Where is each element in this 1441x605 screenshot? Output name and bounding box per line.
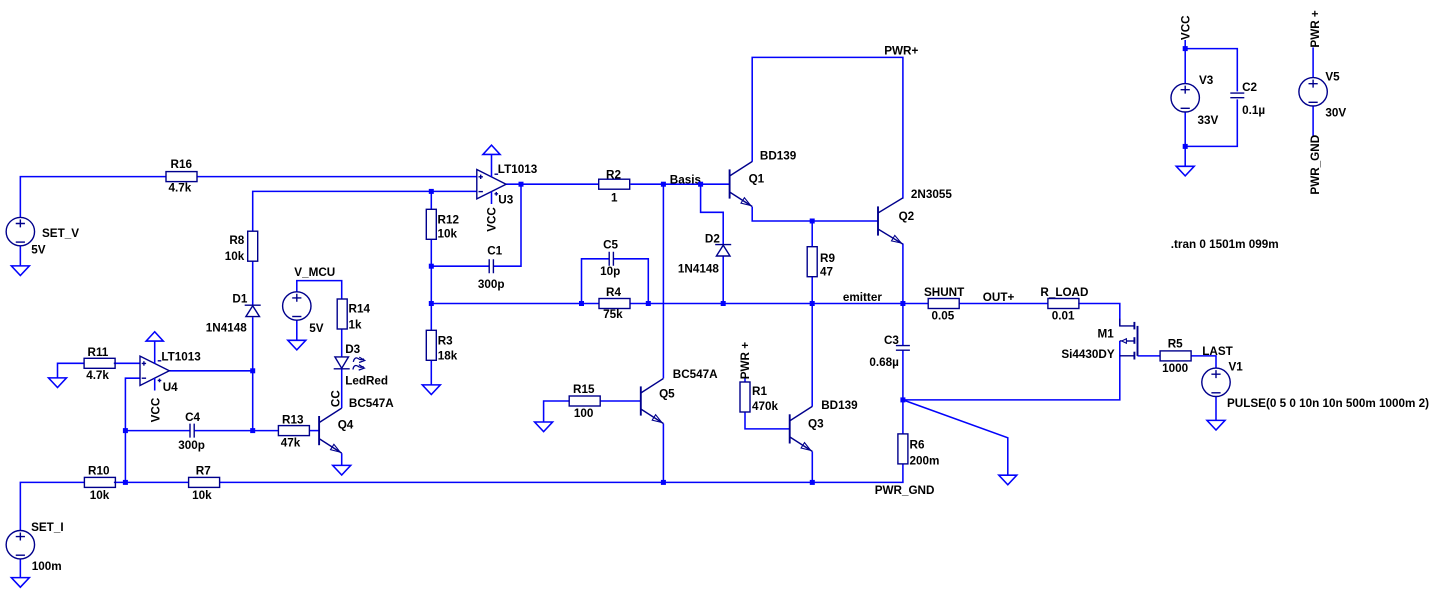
wire R14 to D3: [341, 329, 343, 357]
ground SET_I: [11, 578, 29, 588]
svg-text:V5: V5: [1325, 70, 1340, 83]
junction: [250, 368, 255, 373]
junction: [250, 428, 255, 433]
svg-text:R14: R14: [349, 303, 371, 316]
junction: [661, 182, 666, 187]
ground gate node: [999, 475, 1017, 485]
voltage source V1: [1202, 361, 1429, 410]
svg-text:R12: R12: [438, 213, 460, 226]
svg-text:C2: C2: [1242, 81, 1257, 94]
junction: [810, 301, 815, 306]
svg-text:V_MCU: V_MCU: [294, 266, 335, 279]
wire D1 to C4 row: [252, 317, 254, 430]
svg-text:R1: R1: [752, 385, 767, 398]
svg-text:R10: R10: [88, 465, 110, 478]
wire R11 left: [58, 363, 85, 378]
svg-text:75k: 75k: [603, 308, 623, 321]
diode D2: [715, 245, 731, 256]
svg-text:R_LOAD: R_LOAD: [1040, 286, 1088, 299]
svg-text:C5: C5: [603, 238, 618, 251]
svg-text:V3: V3: [1199, 74, 1214, 87]
wire R8 top row: [253, 191, 432, 231]
voltage source SET_I: [6, 521, 63, 573]
resistor R13: [278, 414, 309, 450]
svg-text:U3: U3: [498, 194, 513, 207]
wire R11 to U4 +in: [114, 362, 140, 364]
svg-text:Q5: Q5: [659, 388, 675, 401]
transistor Q3: [790, 399, 858, 452]
resistor R4: [599, 286, 630, 321]
svg-text:D1: D1: [232, 292, 247, 305]
transistor Q2: [878, 188, 952, 244]
svg-text:10k: 10k: [225, 250, 245, 263]
resistor R16: [166, 158, 197, 195]
svg-text:R3: R3: [438, 335, 453, 348]
wire R10 to SET_I: [20, 482, 84, 530]
svg-text:LedRed: LedRed: [345, 374, 388, 387]
svg-text:LT1013: LT1013: [161, 350, 201, 363]
junction: [810, 219, 815, 224]
wire V1 to ground: [1215, 397, 1217, 421]
resistor R1: [740, 382, 779, 413]
capacitor C4: [190, 424, 194, 438]
wire C5 left: [582, 259, 610, 304]
svg-text:emitter: emitter: [843, 291, 882, 304]
wire to C3: [902, 304, 904, 346]
junction: [646, 301, 651, 306]
resistor R6: [898, 434, 940, 468]
wire C1 to U3 out: [493, 184, 521, 266]
wire VCC to V3: [1184, 40, 1186, 84]
svg-text:PWR+: PWR+: [884, 44, 918, 57]
wire R1 top stub: [744, 378, 746, 382]
svg-text:Basis: Basis: [670, 173, 702, 186]
svg-text:2N3055: 2N3055: [911, 188, 952, 201]
svg-text:R9: R9: [820, 252, 835, 265]
capacitor C5: [609, 252, 613, 266]
wire V_MCU to ground: [296, 320, 298, 340]
wire D3 to Q4 collector: [341, 369, 343, 408]
svg-text:R11: R11: [88, 346, 109, 359]
svg-text:0.05: 0.05: [932, 309, 955, 322]
junction: [123, 480, 128, 485]
junction: [429, 189, 434, 194]
wire Basis column: [662, 184, 664, 378]
op-amp U3: [477, 145, 538, 232]
wire to U3 -in: [431, 190, 477, 192]
junction: [900, 397, 905, 402]
svg-text:1000: 1000: [1162, 362, 1189, 375]
junction: [1183, 46, 1188, 51]
svg-text:R8: R8: [229, 234, 244, 247]
ground V_MCU: [288, 340, 306, 350]
svg-text:1: 1: [611, 191, 618, 204]
resistor R8: [225, 231, 258, 263]
wire V3 to ground: [1184, 112, 1186, 166]
svg-text:R13: R13: [282, 414, 304, 427]
svg-text:Q2: Q2: [899, 210, 915, 223]
wire R8 to D1: [252, 261, 254, 305]
wire R7 to R10: [114, 481, 189, 483]
wire Q3 emitter: [811, 451, 813, 482]
svg-text:18k: 18k: [438, 350, 458, 363]
wire to D2: [701, 184, 724, 244]
svg-text:VCC: VCC: [149, 397, 162, 422]
wire R6 top: [902, 400, 904, 434]
svg-text:1N4148: 1N4148: [678, 262, 719, 275]
ground SET_V: [11, 266, 29, 276]
svg-text:V1: V1: [1229, 361, 1244, 374]
svg-text:C3: C3: [884, 334, 899, 347]
resistor R_LOAD: [1040, 286, 1088, 322]
svg-text:10k: 10k: [192, 489, 212, 502]
junction: [810, 480, 815, 485]
svg-text:VCC: VCC: [1180, 15, 1193, 40]
wire R9 top: [811, 221, 813, 247]
wire SET_I to ground: [19, 559, 21, 578]
wire V5 to PWR_GND: [1312, 106, 1314, 136]
svg-text:5V: 5V: [309, 322, 324, 335]
resistor R3: [426, 330, 457, 362]
svg-text:C1: C1: [487, 244, 502, 257]
svg-text:BC547A: BC547A: [673, 368, 718, 381]
svg-text:PWR +: PWR +: [739, 342, 752, 380]
wire SET_V to R16: [20, 177, 166, 218]
svg-text:5V: 5V: [31, 244, 46, 257]
wire U3 out to R2: [506, 183, 599, 185]
svg-text:PWR_GND: PWR_GND: [1309, 135, 1322, 195]
svg-text:100m: 100m: [32, 560, 62, 573]
svg-text:VCC: VCC: [486, 207, 499, 232]
wire R1 to Q3 base: [745, 412, 790, 429]
wire emitter row mid: [630, 303, 928, 305]
svg-text:200m: 200m: [910, 455, 940, 468]
diode D1: [245, 305, 261, 316]
svg-text:Si4430DY: Si4430DY: [1061, 348, 1114, 361]
ground R3: [422, 385, 440, 395]
wire R16 to U3 +in: [197, 176, 477, 178]
svg-text:33V: 33V: [1198, 114, 1219, 127]
wire C4 to R13: [194, 430, 278, 432]
MOSFET M1: [1061, 319, 1137, 361]
svg-text:PULSE(0 5 0 10n 10n 500m 1000m: PULSE(0 5 0 10n 10n 500m 1000m 2): [1227, 397, 1429, 410]
svg-text:300p: 300p: [178, 439, 205, 452]
wire to C4: [125, 430, 190, 432]
junction: [579, 301, 584, 306]
wire R2 to Q1 base: [631, 183, 730, 185]
junction: [721, 301, 726, 306]
wire R12 to R3: [430, 239, 432, 330]
svg-text:10p: 10p: [600, 265, 620, 278]
svg-text:470k: 470k: [752, 400, 779, 413]
svg-text:C4: C4: [185, 411, 200, 424]
svg-text:R6: R6: [910, 439, 925, 452]
voltage source V3: [1171, 74, 1219, 127]
svg-text:0.68µ: 0.68µ: [869, 356, 899, 369]
transistor Q1: [730, 150, 797, 207]
resistor SHUNT: [924, 286, 965, 322]
svg-text:30V: 30V: [1325, 107, 1346, 120]
wire Q1 emitter to Q2 base: [752, 207, 878, 221]
wire D2 to emitter row: [722, 256, 724, 303]
svg-text:SET_V: SET_V: [42, 227, 79, 240]
junction: [519, 182, 524, 187]
svg-text:Q1: Q1: [749, 172, 765, 185]
junction: [900, 301, 905, 306]
wire R12 top: [430, 191, 432, 209]
wire C2 bottom: [1185, 99, 1237, 146]
svg-text:D2: D2: [705, 232, 720, 245]
voltage source V_MCU: [283, 266, 336, 335]
wire R3 to ground: [430, 360, 432, 385]
junction: [698, 182, 703, 187]
svg-text:LT1013: LT1013: [498, 163, 538, 176]
svg-text:10k: 10k: [90, 489, 110, 502]
svg-text:M1: M1: [1098, 327, 1115, 340]
svg-text:OUT+: OUT+: [983, 291, 1015, 304]
op-amp U4: [140, 332, 201, 423]
svg-text:PWR_GND: PWR_GND: [875, 484, 935, 497]
svg-text:BD139: BD139: [760, 150, 797, 163]
ground R11: [49, 378, 67, 388]
wire PWR+ to V5: [1312, 47, 1314, 77]
svg-text:BD139: BD139: [821, 399, 858, 412]
resistor R14: [337, 299, 370, 331]
wire Q5 emitter: [662, 424, 664, 483]
LED D3: [334, 357, 365, 370]
svg-text:Q3: Q3: [808, 418, 824, 431]
svg-text:0.1µ: 0.1µ: [1242, 104, 1265, 117]
wire R15 to Q5 base: [600, 400, 641, 402]
wire R13 to Q4 base: [309, 430, 319, 432]
svg-text:R2: R2: [606, 169, 621, 182]
capacitor C2: [1230, 93, 1244, 98]
wire SHUNT to R_LOAD: [959, 303, 1048, 305]
junction: [429, 264, 434, 269]
svg-text:R4: R4: [606, 286, 621, 299]
wire PWR_GND row: [219, 464, 903, 483]
ground V3: [1176, 166, 1194, 176]
junction: [429, 301, 434, 306]
transistor Q5: [641, 368, 718, 424]
svg-text:100: 100: [574, 407, 594, 420]
svg-text:R15: R15: [573, 383, 595, 396]
wire Q2 emitter: [902, 244, 904, 304]
wire M1 source to R5: [1138, 355, 1161, 357]
wire C3 to node: [902, 350, 904, 400]
ground R15: [535, 422, 553, 432]
svg-text:D3: D3: [345, 343, 360, 356]
svg-text:300p: 300p: [478, 278, 505, 291]
wire R15 to ground: [544, 401, 570, 422]
ground Q4: [333, 465, 351, 475]
ground V1: [1207, 420, 1225, 430]
svg-text:PWR +: PWR +: [1309, 10, 1322, 48]
wire to C2 top: [1185, 49, 1237, 92]
svg-text:47: 47: [820, 265, 833, 278]
wire M1 gate net: [903, 341, 1120, 400]
wire U4 -in column: [125, 378, 140, 482]
wire V_MCU to R14: [297, 281, 342, 299]
svg-text:LAST: LAST: [1202, 345, 1233, 358]
svg-text:BC547A: BC547A: [349, 397, 394, 410]
resistor R10: [84, 465, 115, 502]
resistor R7: [189, 465, 220, 502]
svg-text:4.7k: 4.7k: [86, 369, 109, 382]
transistor Q4: [319, 397, 394, 453]
wire U4 out: [169, 370, 252, 372]
capacitor C3: [896, 346, 910, 351]
svg-text:.tran 0 1501m 099m: .tran 0 1501m 099m: [1171, 238, 1279, 251]
resistor R9: [807, 247, 835, 279]
voltage source V5: [1299, 70, 1347, 119]
capacitor C1: [489, 259, 493, 273]
wire C5 right: [613, 259, 648, 304]
wire Q4 emitter to ground: [341, 453, 343, 465]
wire R_LOAD to M1 drain: [1078, 304, 1120, 326]
wire PWR+ rail: [752, 57, 903, 198]
wire R5 to V1: [1191, 356, 1217, 368]
wire R9 bottom: [811, 277, 813, 304]
svg-text:R16: R16: [171, 158, 193, 171]
svg-text:R7: R7: [196, 465, 211, 478]
resistor R5: [1160, 338, 1191, 375]
wire to C1: [431, 265, 489, 267]
svg-text:1N4148: 1N4148: [206, 321, 247, 334]
junction: [123, 428, 128, 433]
wire SET_V to ground: [19, 246, 21, 266]
resistor R2: [599, 169, 630, 205]
svg-text:4.7k: 4.7k: [169, 182, 192, 195]
svg-text:47k: 47k: [281, 437, 301, 450]
svg-text:10k: 10k: [438, 228, 458, 241]
wire to Q3 collector: [811, 304, 813, 407]
svg-text:1k: 1k: [349, 318, 363, 331]
voltage source SET_V: [6, 217, 79, 256]
wire emitter row left: [431, 303, 599, 305]
resistor R12: [426, 209, 459, 240]
svg-text:U4: U4: [163, 381, 178, 394]
resistor R15: [569, 383, 600, 420]
svg-text:0.01: 0.01: [1052, 309, 1075, 322]
svg-text:R5: R5: [1168, 338, 1183, 351]
junction: [1183, 144, 1188, 149]
svg-text:CC: CC: [329, 390, 342, 407]
svg-text:SHUNT: SHUNT: [924, 286, 965, 299]
svg-text:SET_I: SET_I: [31, 521, 63, 534]
wire diagonal to ground: [903, 400, 1008, 475]
junction: [661, 480, 666, 485]
resistor R11: [84, 346, 115, 382]
svg-text:Q4: Q4: [338, 419, 354, 432]
